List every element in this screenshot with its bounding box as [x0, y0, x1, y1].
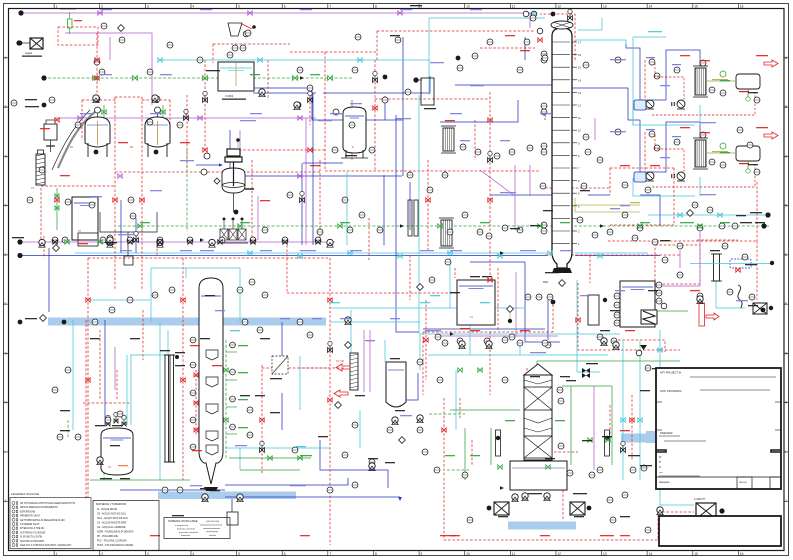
svg-text:NROAS DRENGS/CONTENIMENTO: NROAS DRENGS/CONTENIMENTO [20, 506, 58, 509]
red dashed pipe run 18 [325, 170, 540, 172]
instrument 128 [49, 97, 55, 103]
svg-text:11: 11 [512, 552, 516, 556]
svg-text:W - ACQUE DRAIN: W - ACQUE DRAIN [97, 508, 117, 511]
title block outer [656, 368, 781, 489]
node [175, 355, 179, 359]
cyan pipe run 42 [359, 410, 361, 448]
cyan line valve [718, 213, 722, 217]
red dashed bottom long run [444, 478, 694, 540]
pump 17 [392, 417, 398, 425]
exchanger E3 [588, 295, 599, 325]
instrument 158 [197, 57, 203, 63]
pump 4 [157, 239, 163, 247]
instrument 110 [257, 327, 263, 333]
nomenclatura linee box [164, 518, 230, 539]
green pipe run 7 [536, 361, 538, 372]
pump 19 [237, 494, 243, 502]
instrument 169 [585, 149, 591, 155]
vertical tank H [386, 362, 406, 407]
tank V-2604 [101, 428, 133, 475]
control valve [658, 388, 663, 393]
red dashed pipe run 27 [756, 182, 758, 241]
cyan pipe run 34 [130, 355, 132, 425]
green line valve [606, 438, 610, 442]
instrument 67 [462, 472, 468, 478]
blue pipe run 26 [470, 261, 525, 263]
instrument 81 [484, 338, 490, 344]
cyan line valve [598, 254, 602, 258]
red arrow label skid1 [764, 60, 778, 67]
navy bottom run y497 [225, 496, 400, 498]
flow arrow [450, 332, 454, 336]
svg-text:SPY PROJECT W: SPY PROJECT W [660, 371, 682, 375]
red dashed pipe run 50 [374, 110, 376, 171]
svg-text:SS - ACQUO NOX WS 316L: SS - ACQUO NOX WS 316L [97, 513, 127, 516]
cyan line valve [358, 58, 362, 62]
svg-text:materiale: materiale [181, 534, 191, 537]
node [587, 506, 592, 511]
svg-text:DISEGNER: DISEGNER [660, 432, 673, 435]
instrument 179 [52, 387, 58, 393]
instrument 51 [250, 237, 256, 243]
cyan pipe run 16 [419, 334, 421, 370]
green y226 valve [638, 224, 642, 228]
instrument 184 [737, 127, 743, 133]
instrument 29 [541, 228, 547, 234]
blue pipe run 34 [423, 328, 545, 330]
instrument 161 [297, 67, 303, 73]
control valve [114, 419, 118, 423]
svg-text:a progressivo: a progressivo [175, 524, 189, 527]
svg-text:12: 12 [557, 552, 561, 556]
red dashed bottom left run [87, 258, 89, 497]
svg-text:disegnato: disegnato [659, 481, 670, 484]
lower title box [659, 516, 781, 546]
blue pipe run 2 [230, 175, 402, 177]
violet pipe run 5 [529, 165, 531, 196]
instrument 84 [567, 470, 573, 476]
green line valve [498, 465, 502, 469]
instrument 160 [352, 67, 358, 73]
instrument 146 [632, 235, 638, 241]
cyan pipe run 10 [622, 340, 624, 480]
violet pipe run 7 [655, 232, 700, 286]
instrument [230, 369, 236, 375]
svg-text:5: 5 [238, 4, 240, 8]
instrument 32 [583, 134, 589, 140]
instrument 13 [494, 153, 500, 159]
instrument 68 [589, 472, 595, 478]
instrument 15 [527, 145, 533, 151]
instrument 28 [541, 222, 547, 228]
diamond-dot olive drop [509, 313, 511, 319]
violet line valve [118, 174, 122, 178]
red dashed pipe run 12 [115, 96, 142, 98]
red dashed pipe run 7 [374, 60, 376, 110]
red dashed pipe run 71 [409, 255, 411, 300]
cyan line valve [158, 58, 162, 62]
green pipe run 4 [570, 386, 572, 465]
control valve [308, 98, 313, 103]
crossed box [753, 303, 767, 314]
instrument 87 [169, 287, 175, 293]
pump 22 [657, 507, 663, 515]
crossed box 1 [220, 229, 228, 240]
title block bottom row [656, 476, 781, 478]
instrument 177 [247, 432, 253, 438]
instrument 155 [467, 517, 473, 523]
svg-text:TK: TK [78, 230, 82, 233]
node [383, 75, 388, 80]
blue pipe run 27 [525, 262, 560, 342]
cyan long vertical x660 [660, 330, 694, 505]
node [769, 306, 773, 310]
green pipe run 12 [240, 469, 300, 471]
instrument 54 [57, 434, 63, 440]
red line valve [426, 198, 430, 202]
control valve [373, 78, 378, 83]
svg-text:GETTOPROARTEA DI REGAZIONE FLU: GETTOPROARTEA DI REGAZIONE FLUDI [20, 519, 65, 522]
instrument 98 [240, 45, 246, 51]
highlight band A [48, 318, 326, 326]
svg-text:SI SFUNCTUL SATIN: SI SFUNCTUL SATIN [20, 536, 43, 539]
red dashed pipe run 15 [251, 160, 253, 240]
instrument 115 [417, 427, 423, 433]
valve [194, 401, 198, 405]
flow arrow [500, 251, 504, 255]
svg-text:pressione nominale: pressione nominale [179, 531, 199, 534]
svg-text:(100-XX-100): (100-XX-100) [206, 521, 219, 523]
node [605, 436, 609, 440]
instrument 171 [442, 340, 448, 346]
vapor valve symbol [582, 368, 590, 378]
svg-text:C-2602 TIT: C-2602 TIT [694, 499, 706, 501]
green line valve [546, 465, 550, 469]
instrument 135 [722, 243, 728, 249]
crossed box [494, 502, 509, 515]
instrument 130 [429, 277, 435, 283]
svg-text:V-2602: V-2602 [225, 94, 234, 98]
instrument [230, 424, 236, 430]
cyan pipe run 9 [576, 280, 578, 372]
highlight band B [158, 492, 296, 500]
instrument 2 [94, 59, 100, 65]
svg-text:D: D [659, 466, 661, 469]
blue pipe run 25 [323, 76, 430, 93]
title block tick lines [656, 401, 662, 403]
green line valve [268, 456, 272, 460]
small green component top-left [68, 19, 73, 28]
node [765, 212, 770, 217]
node [232, 218, 235, 221]
red dashed pipe run 53 [552, 300, 554, 332]
instrument 49 [187, 237, 193, 243]
legend materiali tubazioni [93, 501, 159, 551]
instrument 100 [259, 89, 265, 95]
instrument 21 [540, 183, 546, 189]
pump 14 [97, 457, 103, 465]
cyan pipe run 14 [151, 267, 240, 269]
violet pipe run 2 [363, 330, 365, 392]
cyan pipe run 5 [633, 36, 666, 38]
svg-text:E: E [5, 253, 7, 257]
instrument [190, 417, 196, 423]
instrument 31 [615, 57, 621, 63]
crossed box 3 [238, 229, 246, 240]
instrument 55 [75, 434, 81, 440]
blue pipe run 10 [135, 218, 137, 253]
instrument 10 [382, 97, 388, 103]
red dashed pipe run 36 [425, 300, 427, 380]
node [41, 75, 46, 80]
instrument 45 [62, 237, 68, 243]
violet pipe run 9 [114, 347, 116, 390]
pump 8 [259, 89, 265, 97]
green line valve [224, 418, 228, 422]
instrument 94 [94, 96, 100, 102]
instrument 109 [242, 319, 248, 325]
cyan pipe run 33 [126, 355, 128, 425]
cyan pipe run 24 [578, 18, 602, 30]
node [18, 320, 23, 325]
svg-text:F: F [5, 302, 7, 306]
instrument 157 [622, 492, 628, 498]
lavender cross line y336 [440, 335, 558, 337]
pump 15 [601, 338, 607, 346]
blue pipe run 14 [320, 440, 388, 488]
blue pipe run 29 [120, 489, 225, 491]
svg-text:PVDF - POLIVINILIDEN FLORARD: PVDF - POLIVINILIDEN FLORARD [97, 544, 134, 547]
svg-text:14: 14 [649, 552, 653, 556]
reactor R-2602 [145, 107, 170, 157]
thin exchanger E4 [350, 353, 358, 390]
cyan pipe run 31 [350, 310, 352, 353]
svg-text:3: 3 [147, 4, 149, 8]
red dashed pipe run 61 [644, 60, 646, 105]
instrument 137 [295, 102, 301, 108]
cyan line valve [638, 418, 642, 422]
navy header right part [575, 255, 660, 257]
red line valve [140, 198, 144, 202]
red dashed pipe run 29 [578, 283, 680, 350]
green header valve [133, 76, 138, 81]
green line valve [224, 368, 228, 372]
instrument 178 [65, 367, 71, 373]
instrument 174 [417, 359, 423, 365]
instrument 26 [541, 143, 547, 149]
cyan pipe run 12 [150, 268, 152, 322]
instrument 40 [317, 229, 323, 235]
red dashed pipe run 68 [526, 368, 528, 395]
red dashed pipe run 28 [655, 245, 700, 284]
mixer tank T1 [218, 62, 254, 91]
packed column CC-2602 [199, 278, 223, 484]
red dashed pipe run 5 [376, 31, 378, 60]
svg-text:S DUERME VALVT: S DUERME VALVT [20, 523, 40, 526]
green header valve [328, 76, 333, 81]
pump 24 [369, 463, 375, 471]
blue pipe run 5 [455, 84, 552, 86]
violet pipe run 10 [239, 130, 241, 160]
crossed box [30, 38, 43, 49]
control valve [488, 158, 493, 163]
red dashed pipe run 16 [88, 257, 330, 259]
svg-text:C1: C1 [31, 186, 35, 190]
cyan pipe run 23 [575, 40, 626, 44]
instrument 190 [147, 119, 153, 125]
green header valve [93, 76, 98, 81]
cyan pipe run 30 [449, 258, 451, 308]
diamond symbol [345, 342, 352, 349]
blue pipe run 7 [626, 44, 700, 100]
flow arrow [500, 486, 504, 490]
green pipe run 17 [67, 420, 69, 437]
blue pipe run 13 [390, 373, 418, 400]
cyan utility header y253 [75, 252, 548, 254]
svg-text:PVC - POLIVINIL CLORURO: PVC - POLIVINIL CLORURO [97, 541, 127, 543]
green dashed header y78 [48, 77, 218, 79]
cyan pipe run 19 [716, 281, 745, 308]
svg-text:ESPORSIONE: ESPORSIONE [20, 511, 36, 513]
highlight band E [646, 431, 658, 443]
green y226 valve [338, 224, 342, 228]
red dashed pipe run 75 [471, 440, 473, 465]
pump 16 [613, 342, 619, 350]
cyan pipe run 44 [384, 340, 386, 362]
node [94, 150, 99, 155]
condenser skid 2 [634, 129, 760, 187]
green y226 valve [238, 224, 242, 228]
blue pipe run 33 [640, 195, 660, 226]
distillation column C-2601 [551, 21, 581, 268]
green row valve [65, 240, 69, 244]
instrument 20 [581, 183, 587, 189]
instrument 118 [502, 337, 508, 343]
violet pipe run 6 [480, 170, 515, 196]
instrument 131 [445, 259, 451, 265]
svg-text:4: 4 [192, 552, 194, 556]
tank D-2603 [457, 280, 495, 325]
node [252, 25, 256, 29]
instrument 72 [611, 338, 617, 344]
svg-text:NOMENCLATURA LINEE: NOMENCLATURA LINEE [168, 519, 198, 523]
red dashed pipe run 8 [309, 93, 311, 125]
rotameter left [496, 430, 501, 456]
red line valve [488, 278, 492, 282]
instrument 25 [541, 109, 547, 115]
instrument 33 [615, 129, 621, 135]
diamond symbol [559, 280, 566, 287]
red serpentine rect [699, 303, 705, 326]
instrument 8 [530, 15, 536, 21]
instrument 58 [162, 487, 168, 493]
instrument 159 [232, 45, 238, 51]
instrument 116 [502, 377, 508, 383]
red dashed pipe run 67 [43, 236, 45, 258]
diamond symbol [687, 210, 694, 217]
instrument 143 [622, 182, 628, 188]
node [62, 320, 67, 325]
cyan line valve [258, 58, 262, 62]
red dashed pipe run 58 [459, 398, 461, 420]
blue pipe run 1 [254, 88, 403, 120]
flow arrow [300, 76, 304, 80]
svg-text:AT_VM: AT_VM [336, 360, 344, 363]
instrument 36 [697, 293, 703, 299]
red dashed pipe run 72 [286, 245, 288, 293]
pump 21 [697, 296, 703, 304]
instrument 181 [592, 232, 598, 238]
violet line valve [248, 11, 252, 15]
instrument 96 [119, 37, 125, 43]
svg-text:9: 9 [421, 552, 423, 556]
red dashed pipe run 45 [290, 51, 376, 53]
red line valve [538, 38, 542, 42]
instrument 107 [128, 197, 134, 203]
blue pipe run 24 [253, 92, 316, 94]
svg-text:5: 5 [238, 552, 240, 556]
instrument 63 [422, 449, 428, 455]
instrument 119 [545, 342, 551, 348]
purple header valve [158, 240, 162, 244]
instrument 1 [101, 23, 107, 29]
valve [194, 428, 198, 432]
pump 7 [39, 239, 45, 247]
instrument 142 [547, 294, 553, 300]
red dashed pipe run 38 [540, 14, 575, 60]
red dashed pipe run 78 [81, 100, 83, 140]
diamond symbol [40, 315, 47, 322]
green line from heater [657, 310, 688, 312]
instrument 76 [614, 293, 620, 299]
control valve [328, 348, 333, 353]
red line valve [488, 198, 492, 202]
instrument 176 [247, 407, 253, 413]
flow arrow [200, 238, 204, 242]
red line valve [86, 378, 90, 382]
instrument 182 [662, 257, 668, 263]
instrument 52 [282, 237, 288, 243]
red dashed pipe run 83 [545, 187, 610, 189]
red dashed pipe run 3 [40, 188, 42, 248]
highlight band C [508, 522, 576, 530]
green header valve [293, 76, 298, 81]
cyan line valve [621, 418, 625, 422]
violet pipe run 13 [305, 118, 307, 245]
pump 13 [544, 493, 550, 501]
red dashed pipe run 63 [368, 218, 370, 260]
node [17, 253, 22, 258]
violet line valve [398, 11, 402, 15]
red dashed pipe run 54 [454, 268, 456, 278]
svg-text:10: 10 [466, 552, 470, 556]
red line valve [86, 298, 90, 302]
condenser skid 1 [634, 57, 760, 115]
diamond symbol [507, 306, 514, 313]
green pipe run 14 [225, 340, 227, 460]
red dashed pipe run 74 [562, 490, 564, 520]
instrument 120 [645, 527, 651, 533]
instrument 85 [597, 467, 603, 473]
instrument 57 [117, 411, 123, 417]
red line valve [55, 198, 59, 202]
svg-text:8: 8 [375, 4, 377, 8]
column bottom support [552, 268, 572, 273]
double pipe column TC1 [165, 355, 169, 462]
node [18, 10, 23, 15]
red dashed pipe run 77 [82, 99, 115, 101]
instrument 139 [457, 65, 463, 71]
